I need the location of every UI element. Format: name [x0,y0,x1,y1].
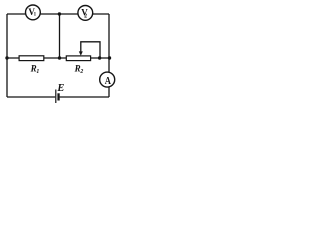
svg-text:E: E [56,83,64,94]
svg-text:A: A [105,76,112,87]
